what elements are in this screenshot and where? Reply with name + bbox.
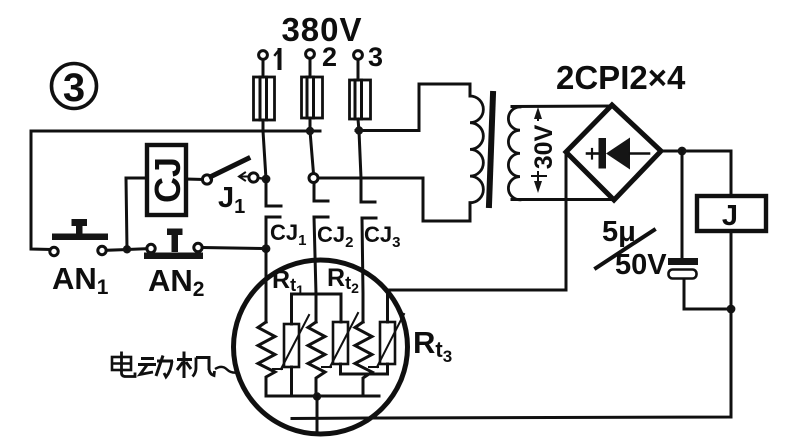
wire star point down bbox=[316, 396, 319, 431]
wire top control bus bbox=[31, 130, 320, 133]
transformer core bbox=[489, 94, 493, 205]
svg-text:AN2: AN2 bbox=[148, 263, 204, 301]
wire motor star bus bbox=[266, 395, 379, 398]
wire bridge dc+ to J and cap bbox=[661, 150, 731, 153]
pointer to motor circle bbox=[215, 367, 238, 373]
thermistor Rt2 bbox=[322, 294, 358, 374]
wire phase2 fuse to contact circle bbox=[310, 118, 314, 174]
svg-text:Rt3: Rt3 bbox=[413, 325, 452, 366]
wire phase1 fuse to contact bbox=[263, 120, 266, 179]
label motor (dian dong ji) bbox=[112, 352, 238, 379]
terminal L2 bbox=[306, 50, 315, 59]
wire AN1 to AN2 bbox=[106, 249, 147, 251]
node bus-L2 bbox=[306, 127, 314, 135]
wire phase2 terminal to fuse bbox=[309, 59, 312, 78]
wire bottom bus into motor bbox=[292, 417, 369, 421]
pushbutton AN1 (stop, NC) bbox=[50, 219, 108, 256]
svg-text:CJ1: CJ1 bbox=[270, 220, 306, 249]
winding W2 zigzag bbox=[308, 322, 325, 396]
pushbutton AN2 (start, NO) bbox=[144, 229, 203, 260]
wire bridge dc- down and to motor thermistors bbox=[387, 152, 566, 290]
winding W3 zigzag bbox=[355, 322, 372, 396]
svg-text:CJ3: CJ3 bbox=[364, 222, 400, 251]
thermistor Rt1 bbox=[273, 294, 309, 396]
transformer T1 secondary bbox=[508, 106, 613, 200]
transformer T1 primary bbox=[419, 84, 483, 221]
glyph ji bbox=[177, 352, 215, 379]
winding W1 zigzag bbox=[258, 322, 275, 396]
figure number badge 3 bbox=[52, 64, 97, 111]
contact CJ1 main (phase1) bbox=[266, 179, 281, 249]
wire relay J bottom to bottom bus bbox=[369, 231, 731, 418]
node dc+ bbox=[678, 147, 687, 156]
wire junction up to CJ coil left bbox=[126, 178, 147, 249]
svg-text:CJ: CJ bbox=[147, 157, 188, 203]
terminal L1 bbox=[259, 51, 268, 60]
wire phase3 fuse down bbox=[358, 119, 361, 178]
svg-text:CJ2: CJ2 bbox=[317, 222, 353, 251]
svg-text:2: 2 bbox=[322, 42, 337, 72]
node self-hold junction bbox=[123, 245, 131, 253]
svg-text:30V: 30V bbox=[530, 124, 558, 169]
wire phase3 terminal to fuse bbox=[357, 60, 360, 81]
relay coil J bbox=[697, 196, 766, 232]
thermistor Rt3 bbox=[369, 290, 404, 374]
label 1 bbox=[275, 50, 280, 68]
svg-text:3: 3 bbox=[63, 66, 85, 110]
wire control tap to transformer primary bottom bbox=[318, 177, 423, 180]
glyph dian bbox=[112, 352, 135, 377]
wire down to relay J bbox=[730, 151, 733, 196]
motor circle bbox=[234, 260, 408, 434]
fuse FU1 bbox=[254, 77, 275, 120]
contact CJ2 main (phase2) bbox=[309, 174, 328, 323]
contact CJ3 main (phase3) bbox=[361, 178, 376, 322]
node AN2 wire to phase1 bbox=[262, 244, 271, 253]
wire bus to transformer primary top bbox=[356, 129, 419, 132]
svg-text:J: J bbox=[722, 200, 738, 232]
switch J1 bbox=[202, 159, 262, 185]
node star point bbox=[313, 392, 321, 400]
wire phase1 terminal to fuse bbox=[262, 60, 265, 78]
wire Rt1 top to Rt2 top bbox=[292, 293, 342, 296]
dimension 30V bbox=[527, 107, 558, 193]
wire CJ coil to switch J1 bbox=[186, 178, 203, 182]
bridge rectifier bbox=[566, 105, 661, 200]
svg-text:J1: J1 bbox=[218, 182, 245, 218]
wire left control drop bbox=[31, 131, 50, 250]
capacitor C1 5u/50V bbox=[668, 151, 731, 309]
node cap to relay return bbox=[727, 305, 736, 314]
svg-text:AN1: AN1 bbox=[52, 261, 109, 299]
svg-text:3: 3 bbox=[368, 42, 383, 72]
svg-text:Rt1: Rt1 bbox=[272, 266, 304, 298]
node bus-L3 bbox=[355, 126, 363, 134]
glyph dong bbox=[138, 356, 173, 378]
capacitor slash bbox=[596, 230, 654, 268]
svg-text:2CPI2×4: 2CPI2×4 bbox=[556, 59, 686, 96]
fuse FU2 bbox=[302, 77, 323, 118]
wire phase1 into motor bbox=[265, 249, 268, 322]
terminal L3 bbox=[354, 51, 363, 60]
contactor coil CJ bbox=[147, 145, 188, 215]
wire AN2 to phase1 node bbox=[202, 248, 262, 249]
node switch to phase1 bbox=[262, 175, 271, 184]
wire Rt2 bottom to Rt3 bottom bbox=[341, 373, 388, 376]
svg-text:50V: 50V bbox=[615, 249, 667, 281]
fuse FU3 bbox=[350, 80, 371, 119]
